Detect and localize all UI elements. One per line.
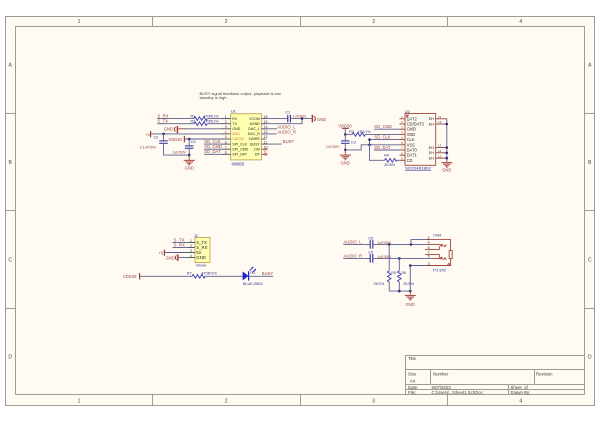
svg-text:C6: C6 (368, 250, 373, 254)
wire jack sleeve row (410, 265, 430, 267)
wire C6 to jack pin5 (373, 257, 431, 259)
resistor R1 (191, 114, 220, 120)
svg-text:+5: +5 (145, 132, 150, 137)
svg-text:+5: +5 (158, 250, 163, 255)
svg-text:DAC_R: DAC_R (248, 132, 261, 136)
svg-text:C: C (588, 257, 592, 263)
connector CN4 pin stubs (427, 240, 430, 266)
wire R1 to U1 pin1 (207, 118, 221, 120)
svg-text:VCC: VCC (232, 132, 240, 136)
svg-text:GND: GND (166, 256, 175, 261)
svg-text:SD_DAT: SD_DAT (374, 145, 391, 150)
wire VDD30 to R3 (345, 133, 352, 135)
svg-text:BLUE-0603: BLUE-0603 (243, 282, 263, 286)
wire AUDIO_L to C5 (343, 243, 370, 245)
resistor R2 (191, 120, 220, 126)
svg-text:1uF/50V: 1uF/50V (326, 145, 340, 149)
svg-text:13: 13 (438, 154, 442, 158)
svg-text:3: 3 (372, 19, 375, 25)
wire U1 pin14 (262, 128, 278, 130)
power port VDD30 at LED (123, 273, 140, 279)
svg-text:BUSY: BUSY (250, 142, 260, 146)
svg-text:AUDIO_R: AUDIO_R (344, 253, 363, 258)
wire S_TX to J1 pin1 (173, 242, 188, 244)
svg-text:SD20481892: SD20481892 (405, 166, 431, 171)
svg-text:AGND: AGND (250, 122, 261, 126)
svg-text:13: 13 (438, 149, 442, 153)
ground symbol below C3 (340, 150, 351, 160)
svg-text:standby is high: standby is high (200, 95, 227, 100)
U2 pin1 marker (406, 115, 409, 118)
svg-text:13: 13 (438, 144, 442, 148)
wire SD_CLK to U1 pin6 (204, 143, 221, 145)
power port +5 (145, 131, 150, 137)
junction C2/C4 gnd (188, 154, 191, 157)
wire U1 pin13 (262, 133, 277, 135)
svg-text:SD_CMD: SD_CMD (374, 124, 392, 129)
svg-text:R5: R5 (391, 271, 395, 275)
svg-text:R6: R6 (402, 271, 406, 275)
wire SD_CMD to U2 pin3 (374, 128, 400, 130)
U2 right pin names EH (429, 116, 435, 160)
wire CD riser (370, 140, 385, 161)
svg-text:4: 4 (519, 19, 522, 25)
svg-text:2: 2 (428, 236, 430, 240)
svg-text:4: 4 (225, 130, 227, 134)
svg-text:R2: R2 (191, 120, 196, 124)
wire R7 to LED D1 (205, 275, 242, 277)
svg-text:3: 3 (190, 249, 192, 253)
U1 right pin names (248, 117, 261, 157)
junction CLK/riser (368, 138, 371, 141)
junction rail gnd (409, 290, 412, 293)
wire S_RX to J1 pin2 (173, 247, 188, 249)
resistor R7 (187, 272, 218, 278)
wire C2 bottom to GND rail (164, 143, 190, 155)
U1 right pin numbers 16-9 (264, 115, 268, 155)
J1 pin stubs (188, 243, 196, 258)
svg-text:U1: U1 (231, 109, 237, 114)
svg-text:13: 13 (438, 120, 442, 124)
svg-text:R3: R3 (349, 130, 354, 134)
wire SD_CLK to U2 pin5 (370, 139, 400, 141)
svg-text:5: 5 (428, 255, 430, 259)
svg-text:GND: GND (341, 160, 350, 165)
svg-text:VDD30: VDD30 (168, 137, 182, 142)
wire R3 to U2 pin4 (365, 133, 399, 135)
svg-text:2: 2 (225, 19, 228, 25)
svg-text:SD_DAT: SD_DAT (204, 149, 221, 154)
capacitor C6 (368, 250, 391, 262)
junction pin15 riser (301, 117, 304, 120)
ground symbol below C4 (184, 155, 195, 165)
note text (200, 91, 282, 100)
svg-text:DP: DP (255, 153, 261, 157)
power port GND at J1 (166, 254, 178, 261)
svg-text:BUSY: BUSY (262, 271, 274, 276)
svg-text:Size: Size (408, 371, 417, 376)
svg-text:C3: C3 (351, 140, 356, 144)
svg-text:7: 7 (225, 145, 227, 149)
svg-text:C5: C5 (368, 236, 373, 240)
svg-text:470R/1%: 470R/1% (201, 272, 217, 276)
svg-text:Grove: Grove (196, 264, 206, 268)
capacitor C2 (140, 134, 168, 149)
svg-text:0.1uF/50V: 0.1uF/50V (140, 145, 157, 149)
IC U1 body (231, 114, 262, 160)
svg-text:1: 1 (225, 115, 227, 119)
svg-text:Title: Title (408, 356, 417, 361)
J1 pin numbers (190, 239, 192, 258)
wire U2 shield to GND (446, 119, 448, 163)
LED D1 (243, 267, 263, 286)
junction VDD30 rail (344, 133, 347, 136)
svg-text:GND: GND (164, 127, 173, 132)
wire +5 to J1 pin3 (165, 252, 188, 254)
junction VDD30/C4 (188, 138, 191, 141)
svg-text:VCOM: VCOM (249, 117, 260, 121)
wire C4 bottom to GND (188, 148, 190, 155)
wire GND port to U1 pin3 (185, 128, 221, 130)
U2 left pin numbers (401, 115, 403, 161)
svg-text:SPI_DAT: SPI_DAT (232, 153, 248, 157)
wire C3 gnd to U2 VSS (345, 145, 399, 150)
capacitor C3 (326, 134, 356, 149)
svg-text:R4: R4 (384, 153, 389, 157)
U1 left pin numbers 1-8 (225, 115, 227, 155)
svg-text:2: 2 (225, 399, 228, 405)
wire jack sleeve to rail (409, 266, 411, 292)
svg-text:3: 3 (428, 262, 430, 266)
junction VCC/C2 (162, 133, 165, 136)
svg-text:TX: TX (232, 122, 237, 126)
svg-text:C1: C1 (285, 110, 290, 114)
svg-text:A4: A4 (410, 378, 416, 383)
wire C3 bottom (344, 143, 346, 150)
svg-text:S_TX: S_TX (158, 119, 169, 124)
wire U1 pin15 riser (262, 119, 303, 124)
svg-text:11: 11 (438, 115, 441, 119)
wire AUDIO_R to C6 (343, 257, 370, 259)
wire R2 to U1 pin2 (207, 123, 221, 125)
wire S_RX to R1 (157, 118, 194, 120)
wire jack tip switch riser (411, 240, 430, 245)
wire C5 to jack pin4 (373, 243, 431, 245)
wire VDD30 to R7 (140, 275, 192, 277)
svg-text:8: 8 (225, 151, 227, 155)
resistor R5 (374, 244, 396, 291)
svg-text:DAC_L: DAC_L (248, 127, 260, 131)
U2 value SD20481892 (405, 166, 431, 171)
connector J1 body (195, 238, 210, 263)
ground symbol below U2 (441, 163, 452, 168)
ground symbol below rail (405, 291, 416, 300)
svg-text:R7: R7 (187, 272, 192, 276)
svg-text:RX: RX (232, 117, 238, 121)
svg-text:C:\Users\..\Sheet1.SchDoc: C:\Users\..\Sheet1.SchDoc (432, 390, 484, 395)
svg-text:BUSY: BUSY (283, 139, 295, 144)
svg-text:File:: File: (408, 390, 416, 395)
U2 left pin names (407, 116, 425, 163)
svg-text:2: 2 (225, 120, 227, 124)
wire SD_CMD to U1 pin7 (204, 148, 221, 150)
svg-text:C2: C2 (154, 136, 159, 140)
svg-text:SPI_CMD: SPI_CMD (232, 147, 248, 151)
junction sleeve riser (409, 264, 412, 267)
svg-text:S_RX: S_RX (174, 243, 186, 248)
power port +5 at J1 (158, 250, 164, 256)
wire resistor gnd rail (389, 290, 410, 292)
svg-text:2: 2 (190, 244, 192, 248)
junction rail R6 (398, 290, 401, 293)
resistor R6 (398, 258, 415, 291)
capacitor C1 (285, 110, 307, 122)
wire SD_DAT to U2 pin7 (374, 149, 400, 151)
svg-text:5: 5 (225, 135, 227, 139)
svg-text:EH: EH (429, 156, 435, 161)
svg-text:GND: GND (442, 168, 451, 173)
svg-text:GND: GND (406, 302, 415, 307)
svg-text:GND: GND (317, 117, 326, 122)
svg-text:PJ-342: PJ-342 (433, 268, 446, 273)
svg-text:R1: R1 (191, 114, 196, 118)
svg-text:2K/1%: 2K/1% (374, 282, 385, 286)
svg-text:4: 4 (428, 241, 430, 245)
junction U2 EH pins (446, 123, 449, 126)
wire VDD30 to U1 pin5 (185, 138, 221, 140)
wire U1 pin11 (262, 143, 282, 145)
svg-text:1: 1 (78, 19, 81, 25)
svg-text:GND: GND (185, 166, 194, 171)
svg-text:1R2/1%: 1R2/1% (358, 130, 372, 134)
title block (406, 356, 585, 395)
junction R6 top (398, 257, 401, 260)
no-connect X pin9 (265, 153, 268, 156)
svg-text:Drawn By:: Drawn By: (511, 390, 531, 395)
power port VDD30 at U2 (338, 123, 352, 134)
svg-text:Number: Number (433, 371, 449, 376)
svg-text:EH: EH (429, 121, 435, 126)
svg-text:1uF/50V: 1uF/50V (293, 115, 307, 119)
svg-text:CN4: CN4 (433, 233, 442, 238)
capacitor C5 (368, 236, 391, 248)
audio jack CN4 symbol (425, 240, 452, 266)
svg-text:CD: CD (407, 158, 413, 163)
svg-text:4: 4 (190, 254, 192, 258)
svg-text:1WIRE: 1WIRE (249, 137, 261, 141)
wire SD_DAT to U1 pin8 (204, 153, 221, 155)
svg-text:VDD30: VDD30 (232, 137, 244, 141)
svg-text:SPI_CLK: SPI_CLK (232, 142, 247, 146)
SD socket U2 body (405, 114, 436, 166)
svg-text:3: 3 (372, 399, 375, 405)
svg-text:470R/1%: 470R/1% (204, 120, 220, 124)
svg-text:VDD30: VDD30 (123, 274, 137, 279)
svg-text:VDD30: VDD30 (338, 123, 352, 128)
wire R4 to U2 pin9 (397, 159, 400, 161)
svg-text:4: 4 (519, 399, 522, 405)
svg-text:D1: D1 (250, 271, 255, 275)
resistor R4 (384, 153, 397, 167)
U2 right pin stubs (436, 119, 447, 158)
svg-text:D: D (588, 355, 592, 361)
junction C3 gnd (344, 149, 347, 152)
svg-text:12: 12 (264, 135, 268, 139)
svg-text:SD_CLK: SD_CLK (374, 135, 390, 140)
svg-text:6: 6 (225, 140, 227, 144)
junction R5 top (388, 243, 391, 246)
wire C1 to GND port (290, 118, 311, 120)
svg-text:GND: GND (232, 127, 240, 131)
wire U1 pin16 to C1 (262, 118, 288, 120)
wire S_TX to R2 (157, 123, 194, 125)
svg-text:Revision: Revision (536, 371, 553, 376)
svg-text:AUDIO_R: AUDIO_R (277, 129, 296, 134)
power port GND at U1 pin3 (164, 126, 186, 133)
no-connect X pin10 (265, 148, 268, 151)
svg-text:N8008: N8008 (232, 161, 245, 166)
U2 left pin stubs (400, 119, 406, 161)
resistor R3 (349, 130, 371, 136)
svg-text:EH: EH (429, 145, 435, 150)
svg-text:2K/5%: 2K/5% (384, 163, 395, 167)
U1 left pin names (232, 117, 248, 157)
U1 right pin stubs (262, 119, 267, 155)
svg-text:D: D (8, 355, 12, 361)
svg-text:C: C (8, 257, 12, 263)
title block text (408, 356, 553, 395)
power port VDD30 at U1 pin5 (168, 136, 184, 142)
capacitor C4 (172, 139, 195, 154)
svg-text:2K/1%: 2K/1% (403, 282, 414, 286)
svg-text:GND: GND (196, 255, 206, 260)
svg-text:EH: EH (429, 150, 435, 155)
connector CN4 pin numbers (428, 236, 430, 266)
junction jack top riser (410, 243, 413, 246)
U2 right pin numbers (438, 115, 442, 158)
svg-text:1: 1 (78, 399, 81, 405)
junction GND/CD riser (368, 144, 371, 147)
J1 pin names (196, 240, 207, 260)
wire GND to J1 pin4 (179, 257, 188, 259)
wire LED to BUSY (249, 275, 274, 277)
svg-text:C4: C4 (191, 140, 196, 144)
wire +5 to U1 pin4 VCC (151, 133, 221, 135)
U1 left pin stubs (221, 119, 231, 155)
power port GND right of C1 (312, 115, 326, 123)
svg-text:DM: DM (254, 147, 260, 151)
svg-text:1: 1 (190, 239, 192, 243)
svg-text:470R/1%: 470R/1% (204, 114, 220, 118)
jack contact squares (440, 244, 442, 246)
svg-text:AUDIO_L: AUDIO_L (344, 239, 363, 244)
svg-text:3: 3 (225, 125, 227, 129)
svg-text:1uF/50V: 1uF/50V (172, 150, 186, 154)
